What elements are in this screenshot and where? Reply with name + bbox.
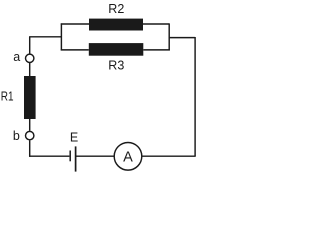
svg-text:b: b xyxy=(13,129,20,143)
wire node b down to bottom-left corner xyxy=(29,140,31,156)
wire bottom-left corner to battery xyxy=(29,155,69,157)
wire left bus vertical xyxy=(60,23,62,50)
node a xyxy=(26,54,34,62)
wire battery to ammeter xyxy=(76,155,114,157)
wire right bus vertical xyxy=(168,23,170,50)
svg-text:A: A xyxy=(123,149,133,165)
svg-text:R3: R3 xyxy=(108,58,124,72)
wire node a to R1 xyxy=(29,63,31,76)
battery E long plate xyxy=(75,146,77,171)
resistor R3 xyxy=(89,43,144,56)
wire right bus to top-right corner xyxy=(169,37,195,39)
node b xyxy=(26,131,34,139)
wire top-left corner to left bus xyxy=(29,36,61,38)
svg-text:a: a xyxy=(13,50,20,64)
wire bottom-right corner to ammeter xyxy=(142,155,196,157)
svg-text:R2: R2 xyxy=(108,2,124,16)
wire left bus to R2 xyxy=(61,23,89,25)
ammeter U1 xyxy=(114,143,142,171)
wire R3 to right bus xyxy=(143,49,170,51)
svg-text:E: E xyxy=(70,130,78,144)
wire left bus to R3 xyxy=(61,49,89,51)
wire R1 to node b xyxy=(29,119,31,131)
resistor R2 xyxy=(89,19,143,31)
wire right side vertical xyxy=(194,37,196,156)
resistor R1 xyxy=(24,76,36,119)
svg-text:R1: R1 xyxy=(1,89,14,103)
wire from node a up to top-left corner xyxy=(29,37,31,54)
battery E short plate xyxy=(69,151,71,162)
wire R2 to right bus xyxy=(143,23,169,25)
